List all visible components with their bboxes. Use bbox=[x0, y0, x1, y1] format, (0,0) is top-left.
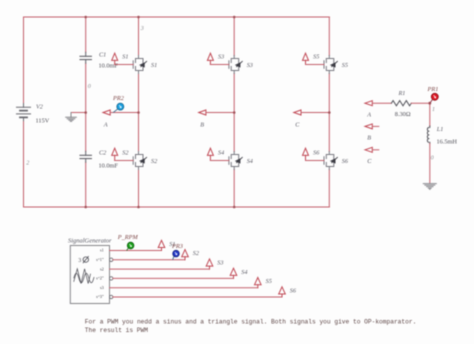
input connector S3 (gate, top) bbox=[207, 53, 213, 64]
svg-text:16.5mH: 16.5mH bbox=[437, 139, 458, 146]
svg-text:PR2: PR2 bbox=[112, 95, 125, 102]
input connector S1 (gate, top) bbox=[112, 53, 118, 64]
wire node C bbox=[301, 112, 329, 114]
svg-text:S4: S4 bbox=[241, 269, 247, 276]
junction top rail bbox=[233, 16, 236, 19]
svg-text:SignalGenerator: SignalGenerator bbox=[68, 238, 112, 245]
wire L1 to ground bbox=[429, 144, 431, 184]
svg-text:1: 1 bbox=[432, 107, 435, 113]
svg-text:C2: C2 bbox=[99, 150, 106, 157]
svg-text:S3: S3 bbox=[217, 260, 223, 267]
svg-text:S3: S3 bbox=[247, 62, 253, 69]
wire gate S3 bbox=[210, 64, 229, 66]
svg-text:S2: S2 bbox=[122, 150, 128, 157]
transistor S3 (IGBT switch, top) bbox=[229, 56, 239, 74]
output connector B (right group) bbox=[365, 124, 372, 129]
transistor S6 (IGBT switch, bottom) bbox=[324, 152, 334, 170]
svg-text:S2: S2 bbox=[193, 250, 199, 257]
svg-text:115V: 115V bbox=[36, 118, 50, 125]
junction bottom rail / cap rail bbox=[84, 206, 87, 209]
wire gate S5 bbox=[306, 64, 325, 66]
wire S4 from generator bbox=[113, 277, 234, 279]
wire gate S4 bbox=[210, 160, 229, 162]
svg-text:S6: S6 bbox=[342, 158, 349, 165]
svg-text:S1: S1 bbox=[122, 54, 128, 61]
svg-text:S4: S4 bbox=[218, 150, 224, 157]
svg-text:3: 3 bbox=[78, 258, 81, 264]
wire S5 from generator bbox=[110, 287, 258, 289]
input connector S4 (gate, bottom) bbox=[207, 148, 213, 160]
junction node 1 bbox=[428, 102, 431, 105]
wire S1 from generator bbox=[110, 250, 162, 252]
svg-text:The result is PWM: The result is PWM bbox=[85, 327, 148, 334]
transistor S1 (IGBT switch, top) bbox=[133, 56, 143, 74]
ground (near battery) bbox=[66, 113, 77, 122]
svg-text:S4: S4 bbox=[247, 158, 253, 165]
svg-text:S1: S1 bbox=[151, 62, 157, 69]
input connector S5 (gate, top) bbox=[303, 53, 309, 64]
probe PR2 (blue, node A) bbox=[112, 95, 125, 112]
svg-text:8.30Ω: 8.30Ω bbox=[395, 111, 411, 118]
svg-text:2: 2 bbox=[26, 161, 29, 167]
svg-text:PR1: PR1 bbox=[427, 86, 439, 93]
svg-text:S3: S3 bbox=[218, 54, 224, 61]
svg-text:S6: S6 bbox=[313, 150, 320, 157]
svg-text:L1: L1 bbox=[436, 126, 444, 133]
probe PR1 (red) bbox=[427, 86, 439, 103]
svg-text:C1: C1 bbox=[99, 52, 106, 59]
signal generator box bbox=[70, 246, 109, 304]
input connector S6 (gate, bottom) bbox=[303, 148, 309, 160]
wire R1 to corner node 1 bbox=[411, 103, 430, 126]
svg-text:B: B bbox=[200, 122, 204, 129]
svg-text:s“3”: s“3” bbox=[96, 294, 104, 299]
wire ground stub to cap rail bbox=[71, 112, 86, 114]
input connector S1 (bottom row) bbox=[158, 240, 165, 250]
svg-text:V2: V2 bbox=[36, 104, 43, 111]
output connector node C bbox=[294, 110, 301, 115]
svg-text:S6: S6 bbox=[290, 287, 297, 294]
wire stub C bbox=[372, 149, 379, 151]
wire leg rail at x=329.3 bbox=[328, 17, 330, 207]
svg-text:S2: S2 bbox=[151, 158, 157, 165]
input connector S6 (bottom row) bbox=[279, 287, 286, 297]
svg-text:A: A bbox=[366, 112, 371, 119]
junction cap rail / ground bbox=[84, 111, 87, 114]
svg-text:3: 3 bbox=[140, 26, 144, 32]
output connector A (right group) bbox=[365, 101, 372, 106]
svg-text:C: C bbox=[295, 122, 300, 129]
wire stub B bbox=[372, 125, 379, 127]
wire gate S6 bbox=[306, 160, 325, 162]
waveform sketch inside generator (triangle + sine) bbox=[74, 269, 94, 284]
junction top rail / cap rail bbox=[84, 16, 87, 19]
battery V2 bbox=[17, 104, 31, 121]
svg-text:s3: s3 bbox=[100, 285, 104, 290]
wire S6 from generator bbox=[113, 296, 282, 298]
svg-text:S5: S5 bbox=[342, 62, 348, 69]
output connector node A bbox=[103, 110, 110, 115]
capacitor C1 10.0mF bbox=[80, 52, 91, 63]
input connector S2 (bottom row) bbox=[182, 250, 189, 260]
wire leg rail at x=138.5 bbox=[138, 17, 140, 207]
capacitor C2 10.0mF bbox=[80, 151, 91, 162]
wire top rail net 3 bbox=[24, 16, 330, 18]
3-phase symbol inside generator bbox=[83, 256, 88, 262]
input connector S4 (bottom row) bbox=[230, 268, 237, 278]
junction bottom rail bbox=[233, 206, 236, 209]
junction node A bbox=[137, 111, 140, 114]
svg-text:s1: s1 bbox=[100, 248, 104, 253]
svg-text:s“2”: s“2” bbox=[96, 276, 104, 281]
svg-text:S5: S5 bbox=[313, 54, 319, 61]
svg-text:0: 0 bbox=[88, 84, 91, 90]
output connector C (right group) bbox=[365, 147, 372, 152]
svg-text:For a PWM you nedd a sinus and: For a PWM you nedd a sinus and a triangl… bbox=[85, 318, 417, 325]
svg-text:C: C bbox=[367, 158, 372, 165]
svg-text:s“1”: s“1” bbox=[96, 257, 104, 262]
wire gate S2 bbox=[115, 160, 134, 162]
svg-text:s2: s2 bbox=[100, 266, 104, 271]
ground (load) bbox=[423, 184, 436, 190]
junction node C bbox=[328, 111, 331, 114]
probe P_RPM (green) bbox=[117, 234, 139, 251]
wire node B bbox=[206, 112, 234, 114]
output connector node B bbox=[199, 110, 206, 115]
wire S3 from generator bbox=[110, 268, 210, 270]
transistor S2 (IGBT switch, bottom) bbox=[133, 152, 143, 170]
svg-text:10.0mF: 10.0mF bbox=[99, 63, 119, 70]
wire leg rail at x=234.2 bbox=[233, 17, 235, 207]
wire bottom rail bbox=[24, 206, 330, 208]
wire left rail (battery branch) bbox=[23, 17, 25, 207]
inductor L1 16.5mH bbox=[427, 126, 429, 144]
wire A to R1 bbox=[372, 102, 391, 104]
svg-text:S5: S5 bbox=[266, 278, 272, 285]
svg-text:PR3: PR3 bbox=[171, 243, 183, 250]
svg-text:P_RPM: P_RPM bbox=[117, 234, 139, 241]
resistor R1 8.30ohm bbox=[391, 101, 411, 106]
probe PR3 (blue) bbox=[171, 243, 183, 259]
junction node B bbox=[233, 111, 236, 114]
wire gate S1 bbox=[115, 64, 134, 66]
input connector S5 (bottom row) bbox=[255, 278, 262, 288]
wire capacitor rail net 0 bbox=[85, 17, 87, 207]
transistor S4 (IGBT switch, bottom) bbox=[229, 152, 239, 170]
svg-text:A: A bbox=[103, 122, 108, 129]
input connector S3 (bottom row) bbox=[206, 259, 213, 269]
svg-text:0: 0 bbox=[431, 156, 434, 162]
junction bottom rail bbox=[137, 206, 140, 209]
input connector S2 (gate, bottom) bbox=[112, 148, 118, 160]
svg-text:B: B bbox=[367, 135, 371, 142]
svg-text:10.0mF: 10.0mF bbox=[99, 163, 119, 170]
svg-text:R1: R1 bbox=[398, 90, 406, 97]
transistor S5 (IGBT switch, top) bbox=[324, 56, 334, 74]
wire S2 from generator bbox=[113, 259, 185, 261]
junction top rail bbox=[137, 16, 140, 19]
wire node A bbox=[110, 112, 138, 114]
